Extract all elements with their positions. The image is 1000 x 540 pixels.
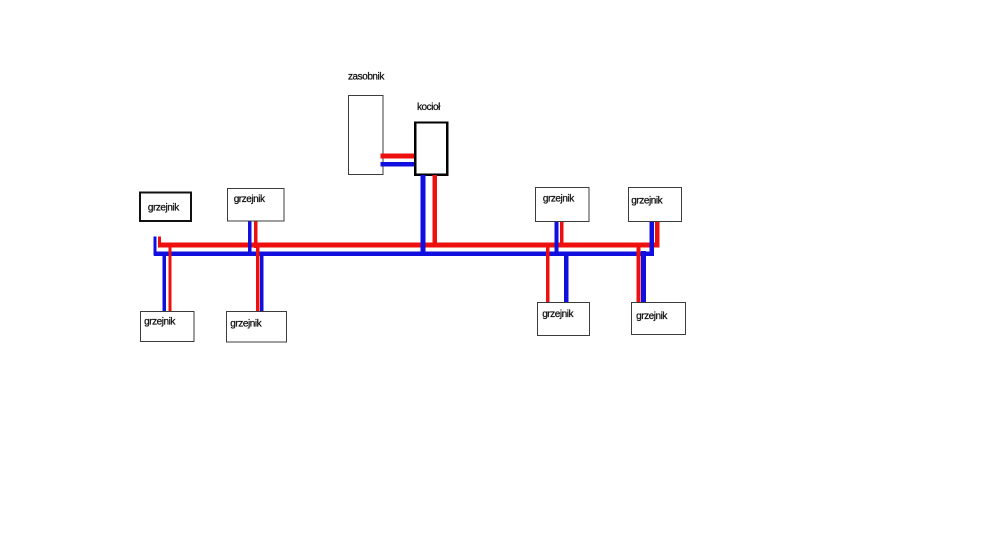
boiler red drop pipe	[432, 175, 437, 247]
storage tank (zasobnik) box	[349, 96, 384, 175]
radiator 8 blue drop	[641, 251, 646, 302]
radiator 7 red drop	[546, 243, 550, 303]
radiator 4 blue riser	[649, 221, 654, 256]
radiator box 6 (bottom)	[227, 312, 287, 343]
radiator 7 blue drop	[564, 252, 568, 303]
svg-text:grzejnik: grzejnik	[636, 311, 668, 322]
radiator box 1 (top left, thick)	[140, 192, 191, 221]
radiator 5 blue drop	[162, 251, 165, 311]
radiator box 7 (bottom right)	[538, 303, 590, 336]
svg-text:grzejnik: grzejnik	[543, 193, 575, 204]
radiator 3 blue riser	[554, 222, 558, 256]
svg-text:grzejnik: grzejnik	[230, 319, 262, 330]
red bus left riser stub	[158, 237, 161, 248]
return pipe tank-boiler (blue)	[381, 162, 416, 167]
svg-text:grzejnik: grzejnik	[542, 309, 574, 320]
svg-text:grzejnik: grzejnik	[234, 194, 266, 205]
radiator 3 red riser	[560, 222, 564, 248]
radiator 5 red drop	[168, 243, 171, 311]
boiler blue drop pipe	[421, 175, 426, 255]
radiator 8 red drop	[637, 243, 641, 302]
radiator 4 red riser	[655, 221, 660, 247]
radiator box 4 (top far right)	[629, 188, 682, 222]
radiator 6 red drop	[256, 243, 260, 312]
svg-text:zasobnik: zasobnik	[348, 72, 385, 83]
radiator box 2 (top)	[228, 189, 285, 222]
boiler (kociol) box	[415, 122, 447, 174]
supply pipe tank-boiler (red)	[381, 154, 416, 159]
svg-text:kocioł: kocioł	[417, 102, 441, 113]
radiator 6 blue drop	[260, 251, 264, 312]
blue bus left riser stub	[154, 237, 157, 256]
red supply bus (horizontal)	[158, 243, 660, 248]
svg-text:grzejnik: grzejnik	[148, 203, 180, 214]
radiator box 3 (top right)	[536, 188, 590, 222]
radiator box 8 (bottom far right)	[632, 303, 686, 335]
svg-text:grzejnik: grzejnik	[631, 196, 663, 207]
radiator 2 blue riser	[248, 221, 251, 256]
radiator box 5 (bottom left)	[141, 312, 195, 342]
blue return bus (horizontal)	[154, 251, 654, 256]
radiator 2 red riser	[254, 221, 257, 248]
svg-text:grzejnik: grzejnik	[144, 317, 176, 328]
